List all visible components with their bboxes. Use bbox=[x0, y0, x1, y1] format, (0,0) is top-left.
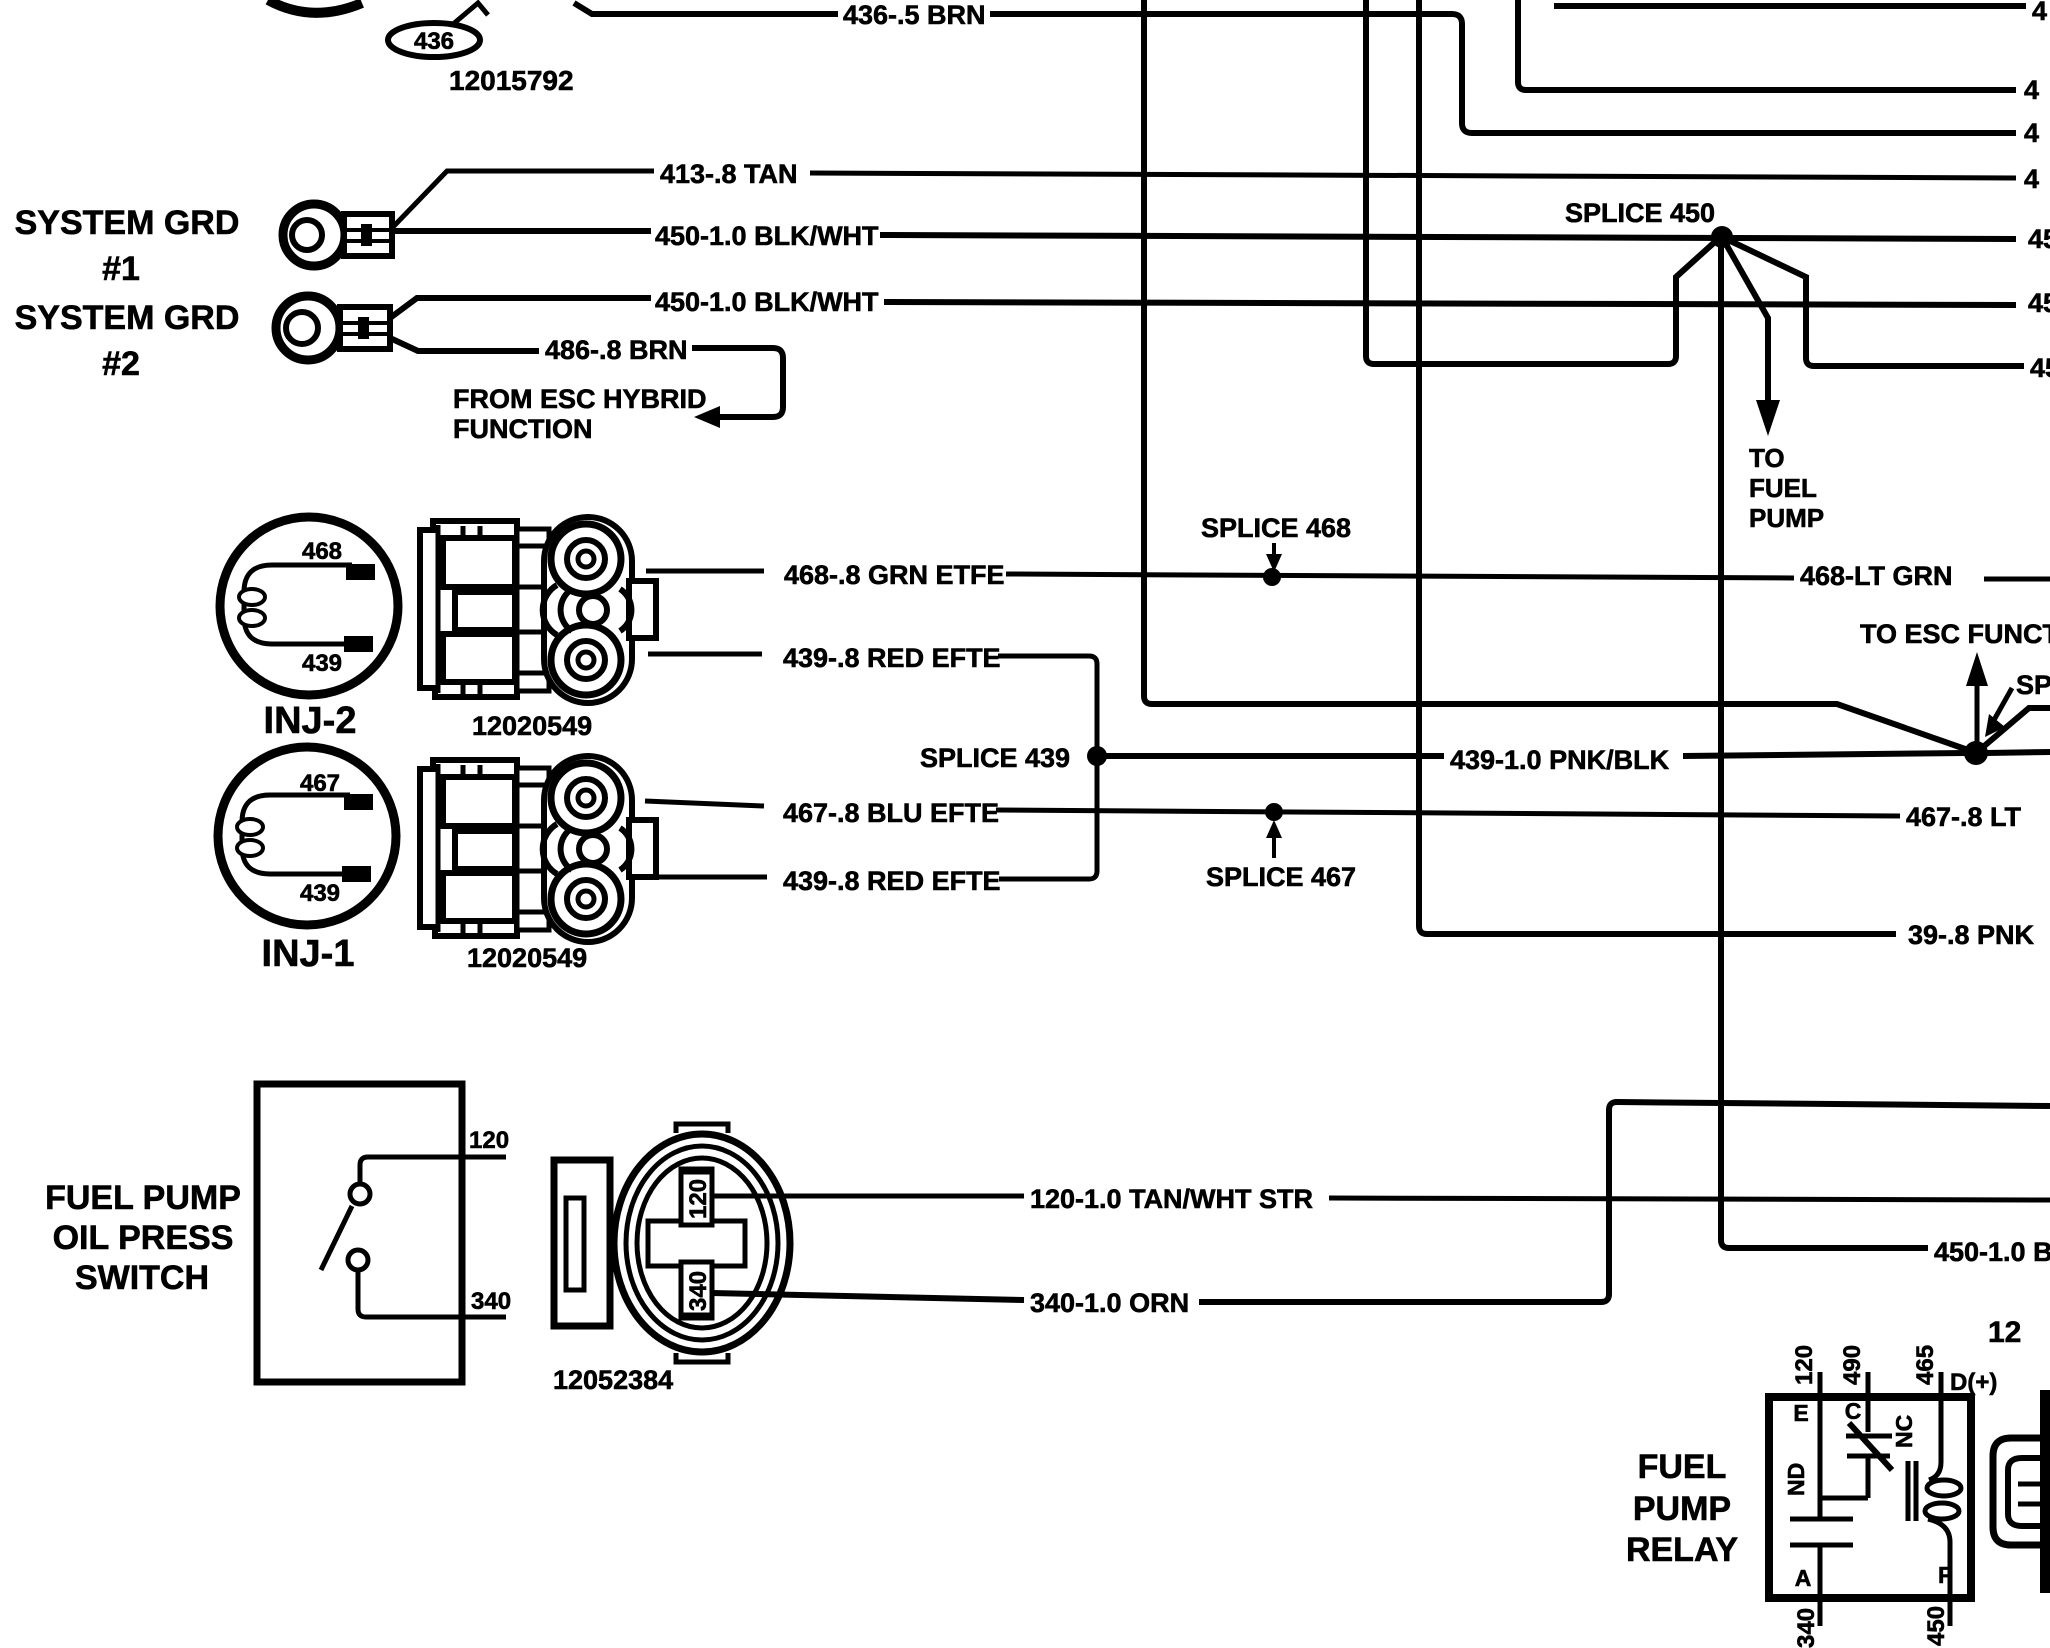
pin D stub and labels 465 D(+) bbox=[1912, 1345, 1997, 1480]
svg-text:FUEL: FUEL bbox=[1638, 1448, 1727, 1486]
svg-text:467-.8 BLU EFTE: 467-.8 BLU EFTE bbox=[783, 798, 999, 828]
relay coil bbox=[1908, 1461, 1961, 1626]
connector 12052384 bbox=[554, 1124, 790, 1362]
relay contact arm (C to NC/NO) bbox=[1783, 1415, 1917, 1498]
svg-text:INJ-2: INJ-2 bbox=[264, 700, 357, 742]
wire 413-.8 TAN bbox=[392, 159, 2039, 228]
svg-text:SWITCH: SWITCH bbox=[75, 1259, 209, 1297]
splice 467 node bbox=[1265, 803, 1283, 821]
svg-text:A: A bbox=[1795, 1565, 1812, 1591]
svg-text:439-.8 RED EFTE: 439-.8 RED EFTE bbox=[783, 866, 1001, 896]
injector INJ-1 symbol bbox=[218, 747, 396, 925]
connector 12020549 (upper) bbox=[420, 517, 656, 703]
svg-text:4: 4 bbox=[2024, 75, 2039, 105]
svg-text:468-LT GRN: 468-LT GRN bbox=[1800, 561, 1953, 591]
pin F label 450 bbox=[1923, 1562, 1952, 1646]
wire arrow to fuel pump bbox=[1722, 237, 1780, 436]
svg-text:486-.8 BRN: 486-.8 BRN bbox=[545, 335, 688, 365]
connector 12020549 (lower) bbox=[420, 756, 656, 942]
wire from ESC splice node up-right to edge bbox=[1976, 708, 2050, 753]
label SYSTEM GRD #1 bbox=[15, 204, 240, 288]
svg-text:OIL PRESS: OIL PRESS bbox=[53, 1219, 234, 1257]
switch contacts and arm bbox=[321, 1184, 370, 1270]
svg-text:120: 120 bbox=[685, 1179, 712, 1219]
pin A label 340 bbox=[1793, 1565, 1820, 1648]
pin E stub and label 120 bbox=[1791, 1345, 1820, 1426]
wire 468-.8 GRN ETFE bbox=[646, 560, 2050, 591]
svg-text:439: 439 bbox=[300, 880, 340, 907]
svg-text:4: 4 bbox=[2024, 118, 2039, 148]
svg-text:413-.8 TAN: 413-.8 TAN bbox=[660, 159, 798, 189]
wire vertical x=1419 to 39-.8 PNK bbox=[1419, 0, 1896, 934]
svg-text:ND: ND bbox=[1783, 1463, 1809, 1496]
svg-text:SYSTEM GRD: SYSTEM GRD bbox=[15, 299, 240, 337]
svg-text:D(+): D(+) bbox=[1950, 1369, 1997, 1396]
svg-text:12020549: 12020549 bbox=[472, 711, 592, 741]
svg-text:490: 490 bbox=[1839, 1345, 1866, 1385]
wire 467-.8 BLU EFTE bbox=[645, 798, 2022, 832]
svg-text:INJ-1: INJ-1 bbox=[262, 933, 355, 975]
label SYSTEM GRD #2 bbox=[15, 299, 240, 383]
svg-text:FUEL PUMP: FUEL PUMP bbox=[45, 1179, 241, 1217]
label SP (clipped splice callout) with arrow bbox=[1985, 670, 2050, 737]
svg-text:E: E bbox=[1793, 1400, 1808, 1426]
svg-text:12: 12 bbox=[1988, 1316, 2021, 1349]
svg-text:436-.5 BRN: 436-.5 BRN bbox=[843, 0, 986, 30]
wire (top right, y=6) bbox=[1554, 3, 2026, 9]
wire 450-1.0 BLK/WHT (ground 1) bbox=[392, 221, 2050, 254]
svg-text:439-1.0 PNK/BLK: 439-1.0 PNK/BLK bbox=[1450, 745, 1670, 775]
ring terminal system ground 2 bbox=[276, 296, 390, 360]
wire main vertical from splice 450 down to 450-1.0 label bbox=[1721, 237, 1928, 1248]
wire 450-1.0 BLK/WHT (ground 2) bbox=[390, 287, 2050, 318]
svg-text:45: 45 bbox=[2028, 224, 2050, 254]
svg-text:FUEL: FUEL bbox=[1749, 473, 1817, 503]
connector fragment (top edge, cut off) bbox=[268, 0, 362, 13]
switch pin 340 stub bbox=[358, 1270, 511, 1317]
svg-text:468: 468 bbox=[302, 538, 342, 565]
wire 439-1.0 PNK/BLK bbox=[1097, 745, 2050, 775]
svg-text:450-1.0 B: 450-1.0 B bbox=[1934, 1237, 2050, 1267]
svg-text:NC: NC bbox=[1891, 1415, 1917, 1448]
svg-text:#1: #1 bbox=[102, 250, 140, 288]
svg-text:120: 120 bbox=[1791, 1345, 1818, 1385]
svg-text:PUMP: PUMP bbox=[1749, 503, 1824, 533]
svg-text:12052384: 12052384 bbox=[553, 1365, 673, 1395]
wire vertical x=1366 branch of splice 450 bbox=[1366, 0, 1717, 364]
ring terminal system ground 1 bbox=[283, 204, 392, 266]
relay contact plates (E to A) bbox=[1790, 1410, 1853, 1626]
injector INJ-2 symbol bbox=[220, 517, 398, 695]
svg-text:340-1.0 ORN: 340-1.0 ORN bbox=[1030, 1288, 1189, 1318]
svg-text:4: 4 bbox=[2032, 0, 2047, 26]
svg-text:340: 340 bbox=[685, 1271, 712, 1311]
svg-text:SPLICE 439: SPLICE 439 bbox=[920, 743, 1070, 773]
splice 450 node bbox=[1711, 226, 1733, 248]
svg-text:39-.8 PNK: 39-.8 PNK bbox=[1908, 920, 2035, 950]
svg-text:SPL: SPL bbox=[2016, 670, 2050, 700]
connector fragment (bottom right edge) bbox=[1993, 1390, 2050, 1593]
svg-text:FROM ESC HYBRID: FROM ESC HYBRID bbox=[453, 384, 707, 414]
svg-text:45: 45 bbox=[2030, 353, 2050, 383]
svg-text:RELAY: RELAY bbox=[1626, 1531, 1738, 1569]
wire 436-.5 BRN bbox=[574, 0, 2039, 148]
svg-text:467: 467 bbox=[300, 770, 340, 797]
wire right branch of splice 450 bbox=[1722, 237, 2024, 366]
svg-text:439-.8 RED EFTE: 439-.8 RED EFTE bbox=[783, 643, 1001, 673]
wire vertical x=1144 to splice node bbox=[1144, 0, 1968, 750]
svg-text:F: F bbox=[1938, 1562, 1952, 1588]
svg-text:SPLICE 450: SPLICE 450 bbox=[1565, 198, 1715, 228]
svg-text:12020549: 12020549 bbox=[467, 943, 587, 973]
svg-text:12015792: 12015792 bbox=[449, 65, 574, 96]
callout oval 436 bbox=[388, 3, 488, 57]
svg-text:PUMP: PUMP bbox=[1633, 1490, 1731, 1528]
wire 486-.8 BRN bbox=[390, 335, 783, 428]
arrow TO ESC FUNCTION bbox=[1860, 619, 2050, 745]
label TO FUEL PUMP bbox=[1749, 443, 1824, 533]
label FUEL PUMP RELAY bbox=[1626, 1448, 1738, 1569]
splice 439 node bbox=[1087, 746, 1107, 766]
svg-text:465: 465 bbox=[1912, 1345, 1939, 1385]
svg-text:450-1.0 BLK/WHT: 450-1.0 BLK/WHT bbox=[655, 221, 879, 251]
svg-text:468-.8 GRN ETFE: 468-.8 GRN ETFE bbox=[784, 560, 1005, 590]
svg-text:120: 120 bbox=[469, 1127, 509, 1154]
svg-text:340: 340 bbox=[471, 1288, 511, 1315]
svg-text:450: 450 bbox=[1923, 1606, 1950, 1646]
svg-text:C: C bbox=[1845, 1398, 1862, 1424]
label FROM ESC HYBRID FUNCTION bbox=[453, 384, 707, 444]
svg-text:467-.8 LT: 467-.8 LT bbox=[1906, 802, 2022, 832]
svg-text:TO ESC FUNCTI: TO ESC FUNCTI bbox=[1860, 619, 2050, 649]
splice node to ESC function bbox=[1964, 741, 1988, 765]
label SPLICE 468 with arrow bbox=[1201, 513, 1351, 572]
wire 439-.8 RED EFTE (lower, label and left stub) bbox=[650, 866, 1001, 896]
svg-text:436: 436 bbox=[414, 28, 454, 55]
label SPLICE 467 with arrow bbox=[1206, 820, 1356, 892]
svg-text:SYSTEM GRD: SYSTEM GRD bbox=[15, 204, 240, 242]
label FUEL PUMP OIL PRESS SWITCH bbox=[45, 1179, 241, 1297]
wire 340-1.0 ORN bbox=[712, 1102, 2050, 1318]
svg-text:#2: #2 bbox=[102, 345, 140, 383]
wire vertical to right edge y=90 bbox=[1518, 0, 2016, 90]
switch pin 120 stub bbox=[360, 1127, 509, 1184]
fuel pump relay box bbox=[1769, 1397, 1971, 1598]
svg-text:SPLICE 467: SPLICE 467 bbox=[1206, 862, 1356, 892]
fuel pump oil press switch box bbox=[257, 1084, 462, 1382]
splice 468 node bbox=[1263, 568, 1281, 586]
svg-text:120-1.0 TAN/WHT STR: 120-1.0 TAN/WHT STR bbox=[1030, 1184, 1313, 1214]
svg-text:45: 45 bbox=[2028, 288, 2050, 318]
wire 120-1.0 TAN/WHT STR bbox=[712, 1184, 2050, 1214]
pin C stub and label 490 bbox=[1839, 1345, 1868, 1432]
wire 439-.8 RED EFTE (upper) bbox=[648, 643, 1097, 879]
svg-text:439: 439 bbox=[302, 650, 342, 677]
svg-text:4: 4 bbox=[2024, 164, 2039, 194]
svg-text:SPLICE 468: SPLICE 468 bbox=[1201, 513, 1351, 543]
svg-text:450-1.0 BLK/WHT: 450-1.0 BLK/WHT bbox=[655, 287, 879, 317]
svg-text:FUNCTION: FUNCTION bbox=[453, 414, 592, 444]
svg-text:340: 340 bbox=[1793, 1608, 1820, 1648]
svg-text:TO: TO bbox=[1749, 443, 1785, 473]
